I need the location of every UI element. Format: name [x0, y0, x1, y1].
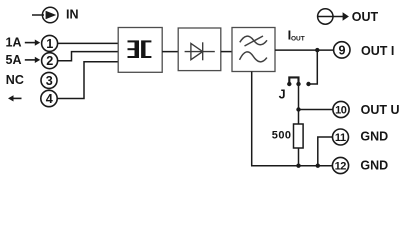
svg-text:4: 4	[46, 92, 53, 106]
terminal circle 11	[333, 129, 349, 145]
arrow into terminal 1	[25, 40, 40, 46]
rectifier block	[178, 28, 221, 71]
resistor 500	[294, 124, 304, 148]
arrow into terminal 2	[25, 57, 40, 63]
svg-text:10: 10	[335, 104, 347, 116]
svg-text:1A: 1A	[6, 36, 22, 50]
transformer block U1	[118, 28, 162, 73]
svg-text:5A: 5A	[6, 53, 22, 67]
node resistor/ground	[296, 164, 300, 168]
svg-text:9: 9	[338, 43, 345, 57]
svg-text:2: 2	[46, 54, 53, 68]
terminal circle 12	[332, 157, 348, 173]
wire resistor to ground rail	[298, 148, 300, 166]
OUT flow symbol	[318, 9, 349, 24]
terminal circle 9	[334, 42, 350, 58]
junction node on OUT I line	[315, 48, 319, 52]
svg-text:OUT I: OUT I	[361, 44, 394, 58]
jumper J middle contact	[296, 82, 300, 86]
svg-text:J: J	[279, 88, 286, 102]
svg-text:12: 12	[335, 160, 347, 172]
wire junction down to jumper right contact	[309, 50, 318, 84]
wire jumper to resistor / OUT U node	[298, 84, 300, 124]
jumper J left contact	[287, 82, 291, 86]
wire node to terminal 10	[299, 109, 334, 111]
svg-text:OUT: OUT	[352, 10, 379, 24]
svg-text:11: 11	[335, 132, 346, 144]
svg-text:500: 500	[272, 129, 292, 141]
wire terminal2 to transformer (jog up)	[58, 52, 119, 61]
wire branch up to terminal 11	[318, 137, 333, 166]
wire terminal4 to transformer (up and right)	[57, 62, 118, 99]
jumper J right contact	[306, 82, 310, 86]
IN flow symbol	[32, 7, 58, 23]
terminal circle 3	[41, 72, 57, 88]
filter symbol: crossed sine	[240, 36, 268, 62]
svg-text:GND: GND	[360, 130, 388, 144]
svg-text:NC: NC	[6, 73, 24, 87]
node gnd branch	[316, 164, 320, 168]
wire rectifier to filter	[221, 51, 232, 53]
terminal circle 1	[42, 35, 58, 51]
filter block	[232, 28, 275, 72]
node OUT U	[296, 107, 300, 111]
svg-text:3: 3	[46, 74, 53, 88]
terminal circle 4	[41, 90, 57, 106]
wire transformer to rectifier	[162, 51, 178, 53]
wire terminal1 to transformer	[58, 42, 119, 44]
svg-text:IN: IN	[66, 8, 79, 22]
svg-text:OUT U: OUT U	[361, 103, 400, 117]
wire filter output to terminal 9	[275, 49, 334, 51]
svg-text:GND: GND	[360, 159, 388, 173]
diode symbol	[185, 42, 215, 60]
wire filter bottom to ground rail	[251, 72, 253, 166]
arrow out (terminal 4 return)	[8, 95, 22, 101]
terminal circle 2	[42, 53, 58, 69]
ground rail	[251, 165, 332, 167]
svg-text:OUT: OUT	[291, 36, 305, 43]
svg-text:1: 1	[46, 37, 53, 51]
label I_OUT	[288, 27, 305, 42]
terminal circle 10	[333, 101, 349, 117]
transformer symbol	[128, 40, 152, 58]
jumper bracket	[289, 77, 298, 83]
